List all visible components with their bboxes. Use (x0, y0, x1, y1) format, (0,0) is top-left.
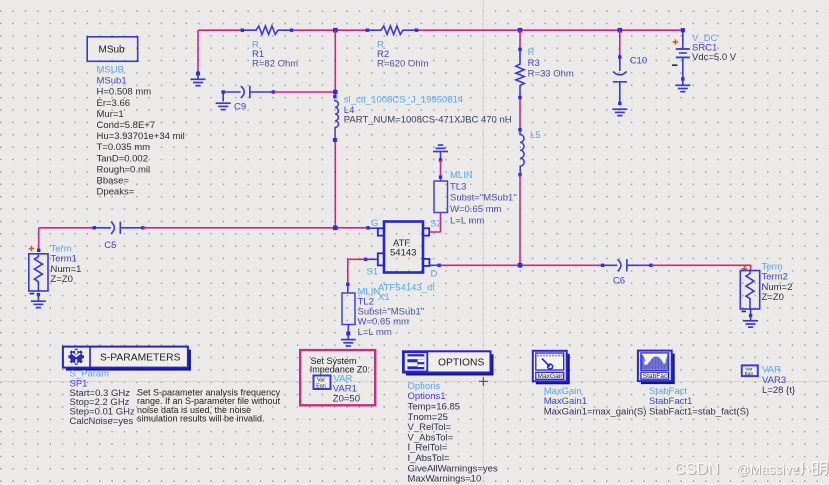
svg-text:Er=3.66: Er=3.66 (97, 98, 131, 109)
wire top supply rail segment 1 (198, 29, 243, 31)
svg-text:MaxWarnings=10: MaxWarnings=10 (408, 474, 482, 485)
label transistor type ATF 54143 (390, 238, 416, 258)
svg-text:L=L mm: L=L mm (358, 327, 392, 338)
label Options1 parameters (408, 381, 498, 485)
ground (Term2) (743, 309, 758, 327)
svg-text:MSUB: MSUB (97, 65, 124, 76)
label Term1 parameters (51, 243, 82, 285)
inductor L5 (520, 130, 524, 175)
svg-text:G: G (371, 218, 378, 229)
svg-text:CSDN: CSDN (674, 461, 719, 478)
svg-text:TL3: TL3 (450, 181, 466, 192)
label MaxGain1 equation (544, 386, 647, 418)
svg-text:C9: C9 (234, 101, 246, 112)
label VAR1 Z0=50 (333, 374, 360, 405)
port Term2 (742, 266, 748, 272)
OPTIONS controller box (406, 354, 494, 375)
svg-text:C10: C10 (630, 56, 647, 67)
ground (C10) (612, 109, 627, 115)
svg-text:MaxGain: MaxGain (538, 373, 565, 380)
label R1 designator and value (252, 39, 298, 69)
wire top supply rail segment 3 (415, 29, 683, 31)
wire gate lead (368, 227, 378, 229)
svg-text:Dpeaks=: Dpeaks= (97, 187, 135, 198)
wire drain lead (429, 264, 439, 266)
ground (left rail) (191, 74, 206, 86)
capacitor C6 (603, 259, 651, 271)
svg-text:Cond=5.8E+7: Cond=5.8E+7 (97, 120, 156, 131)
label TL2 parameters (358, 286, 425, 338)
svg-text:R: R (528, 47, 535, 58)
svg-text:TanD=0.002: TanD=0.002 (97, 153, 149, 164)
svg-text:OPTIONS: OPTIONS (438, 358, 484, 369)
options icon (404, 352, 427, 371)
label SRC1 designator and value (692, 33, 737, 63)
label Term2 parameters (762, 261, 793, 303)
label StabFact1 equation (649, 386, 749, 418)
capacitor C9 (223, 86, 273, 102)
pin labels G S1 S2 D and X1 designator (367, 218, 442, 303)
resistor R1 (243, 26, 290, 34)
ground (C9) (216, 103, 231, 109)
svg-text:R3: R3 (528, 58, 540, 69)
MSub box (87, 37, 138, 62)
svg-text:sl_ctt_1008CS_J_19950814: sl_ctt_1008CS_J_19950814 (344, 94, 463, 105)
wire rail to R3 (519, 30, 521, 49)
svg-text:simulation results will be inv: simulation results will be invalid. (137, 414, 265, 424)
svg-text:@Massive: @Massive (736, 462, 799, 477)
svg-text:L5: L5 (530, 130, 541, 141)
svg-text:S-PARAMETERS: S-PARAMETERS (100, 353, 181, 364)
label SP1 parameters (70, 368, 135, 427)
resistor R3 (516, 49, 524, 97)
wire C6 to Term2 (651, 265, 751, 271)
ground (TL2) (341, 340, 356, 346)
svg-text:MSub1: MSub1 (97, 76, 127, 87)
transistor X1 ATF54143 (384, 222, 423, 273)
svg-text:Z0=50: Z0=50 (333, 393, 360, 404)
svg-text:Bbase=: Bbase= (97, 176, 130, 187)
svg-text:Mur=1: Mur=1 (97, 109, 124, 120)
node C9 junction (333, 90, 337, 94)
svg-text:W=0.65 mm: W=0.65 mm (450, 204, 502, 215)
svg-text:D: D (431, 268, 438, 279)
svg-text:Hu=3.93701e+34 mil: Hu=3.93701e+34 mil (97, 131, 185, 142)
svg-text:R=82 Ohm: R=82 Ohm (252, 59, 298, 70)
gear icon (68, 349, 84, 365)
label TL3 parameters (450, 170, 517, 227)
plus marker SRC1 (673, 39, 679, 45)
svg-text:Z=Z0: Z=Z0 (51, 274, 73, 285)
annotation text (137, 387, 281, 423)
svg-text:S1: S1 (367, 266, 379, 277)
StabFact measurement box (641, 354, 675, 385)
minus marker SRC1 (672, 64, 677, 66)
microstrip TL2 (366, 258, 378, 260)
wire left rail drop to ground (197, 30, 199, 74)
svg-text:T=0.035 mm: T=0.035 mm (97, 142, 151, 153)
page boundary vertical line (482, 0, 484, 485)
voltage source V_DC SRC1 (676, 30, 690, 79)
label R2 designator and value (377, 39, 429, 69)
label L4 part number (344, 94, 512, 125)
MSUB parameter block (97, 65, 185, 198)
node rail junction x520 (518, 28, 523, 33)
svg-text:R=620 Ohm: R=620 Ohm (377, 59, 429, 70)
svg-text:W=0.65 mm: W=0.65 mm (358, 317, 410, 328)
VAR1 icon (314, 376, 331, 390)
svg-text:StabFact: StabFact (643, 373, 670, 380)
ground (Term1) (31, 294, 46, 308)
node rail junction x335 (333, 28, 338, 33)
svg-text:L=L mm: L=L mm (450, 216, 484, 227)
S-PARAMETERS controller box (66, 350, 191, 371)
port Term1 (38, 228, 40, 251)
svg-text:Z=Z0: Z=Z0 (762, 292, 784, 303)
label R3 designator and value (528, 47, 574, 79)
wire C9 to bias line (273, 91, 335, 93)
page boundary horizontal line (0, 380, 829, 382)
svg-text:StabFact: StabFact (649, 386, 687, 397)
svg-text:H=0.508 mm: H=0.508 mm (97, 87, 152, 98)
VAR3 equation (742, 365, 758, 376)
svg-text:MaxGain1: MaxGain1 (544, 396, 587, 407)
node rail junction x620 (618, 28, 623, 33)
watermark (674, 461, 828, 479)
wire drain line (439, 264, 602, 266)
svg-text:MaxGain: MaxGain (544, 386, 582, 397)
inductor L4 (335, 100, 339, 140)
ground (TL3 top, flipped) (433, 145, 448, 151)
svg-text:C5: C5 (104, 240, 116, 251)
Set System Impedance box (300, 350, 375, 405)
resistor R2 (368, 26, 415, 34)
svg-text:Rough=0 mil: Rough=0 mil (97, 164, 151, 175)
page corner crosshair (479, 377, 488, 386)
wire gate line (39, 227, 95, 229)
node gate junction (333, 226, 338, 231)
svg-text:MaxGain1=max_gain(S): MaxGain1=max_gain(S) (544, 407, 647, 418)
MaxGain measurement box (536, 354, 570, 385)
svg-text:L=28 {t}: L=28 {t} (762, 385, 795, 396)
capacitor C5 (94, 222, 143, 234)
wire top supply rail segment 2 (290, 29, 368, 31)
svg-text:Eqn: Eqn (316, 383, 326, 389)
svg-text:PART_NUM=1008CS-471XJBC 470 nH: PART_NUM=1008CS-471XJBC 470 nH (344, 115, 512, 126)
svg-text:StabFact1: StabFact1 (649, 396, 692, 407)
wire vertical bias line x335 upper (334, 30, 336, 97)
ground (SRC1) (675, 79, 690, 92)
svg-text:MLIN: MLIN (450, 170, 473, 181)
svg-text:CalcNoise=yes: CalcNoise=yes (70, 416, 134, 427)
svg-text:StabFact1=stab_fact(S): StabFact1=stab_fact(S) (649, 407, 749, 418)
node drain junction (518, 263, 523, 268)
wire C5 to gate junction (143, 227, 368, 229)
node rail left ground junction (196, 72, 200, 76)
wire vertical bias line x335 lower (334, 140, 336, 228)
svg-text:MSub: MSub (99, 45, 126, 56)
svg-text:C6: C6 (613, 275, 625, 286)
svg-text:Subst="MSub1": Subst="MSub1" (450, 193, 517, 204)
label VAR3 L=28 {t} (762, 365, 795, 396)
wire L5 to drain junction (519, 175, 521, 265)
capacitor C10 (619, 30, 621, 57)
svg-text:54143: 54143 (390, 248, 416, 259)
wire R3 to L5 (519, 98, 521, 131)
svg-text:Eqn: Eqn (745, 371, 754, 377)
svg-text:Vdc=5.0 V: Vdc=5.0 V (692, 52, 737, 63)
svg-text:R=33 Ohm: R=33 Ohm (528, 69, 574, 80)
